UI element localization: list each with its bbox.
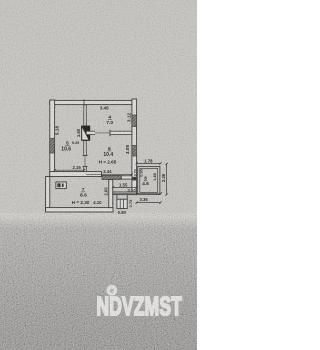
door recess side right [126, 195, 128, 200]
dim tick [165, 163, 167, 165]
wall between rooms 5 and 7 [50, 172, 102, 177]
wall between rooms 4 and 6 [86, 131, 132, 134]
door recess side left [116, 195, 118, 200]
loggia outer box [138, 166, 160, 194]
dim tick [135, 186, 137, 188]
wall right [132, 99, 137, 195]
dim line 3.10 [113, 192, 161, 194]
door sill line [95, 132, 110, 134]
dim tick [112, 186, 114, 188]
dim line 2.15 [55, 169, 84, 171]
top wall tick at central wall [83, 99, 85, 106]
dim line 3.44 [86, 173, 132, 175]
door leaf line [119, 199, 121, 208]
vent shaft white triangle [82, 128, 88, 140]
dim line 1.55 [113, 186, 137, 188]
dim line 3.36 [137, 202, 161, 204]
jamb tick [109, 130, 111, 136]
jamb tick [83, 155, 88, 157]
dim tick [136, 201, 138, 203]
watermark logo circle [106, 285, 117, 296]
stove cell 1 [57, 183, 60, 187]
window W4 room6 bottom hatched [102, 175, 121, 179]
wall bottom [46, 208, 113, 212]
entrance door box [117, 199, 127, 208]
wall hall bottom [113, 192, 137, 195]
window W3 right wall [132, 146, 137, 157]
dim line 2.36 [166, 164, 168, 195]
dim tick [159, 162, 161, 164]
window W2 right wall [132, 115, 137, 127]
stove cell 2 [62, 184, 64, 188]
dim tick [83, 169, 85, 171]
dim tick [136, 162, 138, 164]
wall top outer [50, 100, 137, 104]
dim tick [159, 201, 161, 203]
door opening wall 4-6 [95, 131, 110, 136]
dim tick [54, 169, 56, 171]
dim tick [160, 192, 162, 194]
film grain overlay [0, 0, 197, 350]
window W1 left wall [50, 139, 55, 154]
wall right of W4 [121, 176, 132, 179]
loggia inner box [140, 169, 158, 193]
jamb tick [83, 166, 88, 168]
dim tick [131, 173, 133, 175]
wall central vertical lower [84, 141, 86, 156]
vent shaft [81, 126, 90, 141]
wall left lower [46, 177, 50, 213]
door opening central wall [84, 156, 86, 167]
black cell in right wall [132, 177, 136, 181]
door leaf line [122, 199, 124, 208]
wall between room 7 and hall [109, 180, 113, 208]
dim line 1.78 [137, 162, 161, 164]
wall central vertical bottom stub [84, 167, 86, 172]
wall left upper [50, 100, 55, 177]
dim tick [165, 194, 167, 196]
stove symbol room 7 [56, 182, 66, 189]
wall central vertical upper [84, 105, 86, 126]
